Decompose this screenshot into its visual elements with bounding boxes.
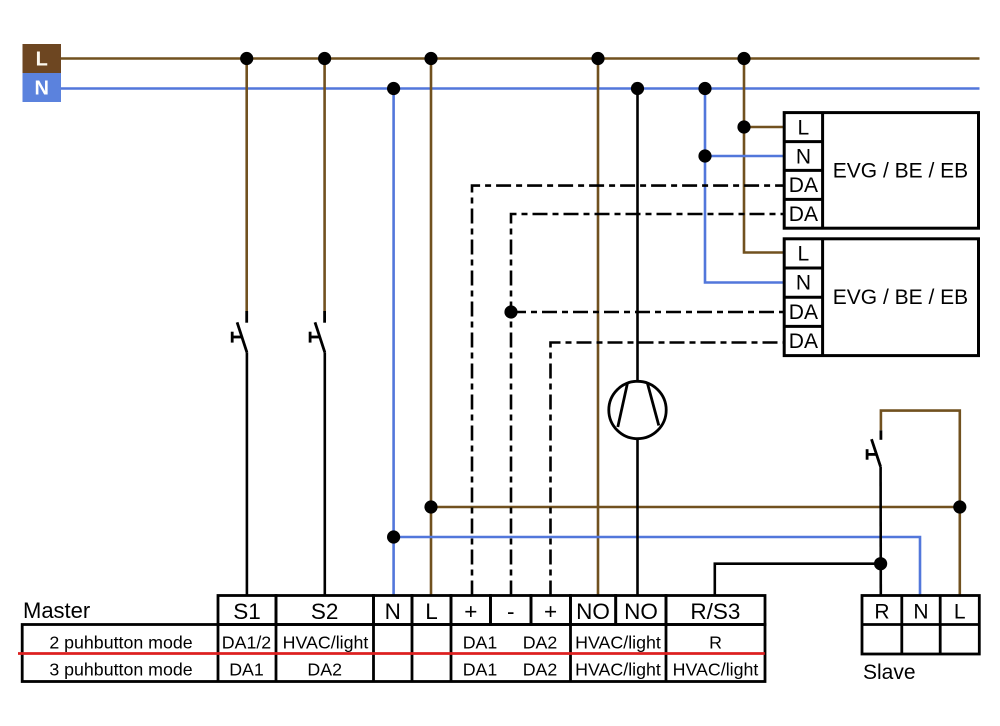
svg-text:+: +: [464, 599, 477, 624]
svg-text:L: L: [798, 242, 810, 265]
svg-text:Slave: Slave: [863, 661, 916, 684]
svg-text:L: L: [798, 116, 810, 139]
svg-text:EVG / BE / EB: EVG / BE / EB: [833, 159, 968, 182]
svg-text:N: N: [796, 145, 811, 168]
svg-text:HVAC/light: HVAC/light: [673, 659, 759, 679]
svg-text:S1: S1: [233, 599, 261, 624]
svg-text:S2: S2: [311, 599, 339, 624]
svg-text:DA1: DA1: [229, 659, 264, 679]
svg-text:N: N: [796, 272, 811, 295]
svg-text:DA2: DA2: [523, 659, 558, 679]
svg-text:DA2: DA2: [307, 659, 342, 679]
svg-text:L: L: [425, 599, 438, 624]
svg-text:L: L: [954, 601, 966, 624]
svg-text:DA: DA: [789, 174, 818, 197]
svg-text:+: +: [544, 599, 557, 624]
svg-text:EVG / BE / EB: EVG / BE / EB: [833, 286, 968, 309]
svg-text:DA: DA: [789, 203, 818, 226]
svg-text:NO: NO: [576, 599, 610, 624]
svg-text:HVAC/light: HVAC/light: [283, 633, 369, 653]
svg-text:DA1: DA1: [463, 633, 498, 653]
svg-text:DA: DA: [789, 330, 818, 353]
svg-text:DA: DA: [789, 301, 818, 324]
svg-text:N: N: [913, 601, 928, 624]
svg-text:HVAC/light: HVAC/light: [575, 659, 661, 679]
svg-text:R: R: [874, 601, 889, 624]
svg-text:3 puhbutton mode: 3 puhbutton mode: [49, 659, 192, 679]
svg-text:DA1/2: DA1/2: [222, 633, 271, 653]
svg-text:N: N: [385, 599, 401, 624]
svg-text:DA1: DA1: [463, 659, 498, 679]
svg-text:-: -: [507, 599, 515, 624]
svg-text:N: N: [34, 78, 48, 100]
svg-text:DA2: DA2: [523, 633, 558, 653]
svg-text:L: L: [36, 49, 48, 71]
svg-text:Master: Master: [23, 598, 90, 623]
svg-text:HVAC/light: HVAC/light: [575, 633, 661, 653]
svg-text:2 puhbutton mode: 2 puhbutton mode: [49, 633, 192, 653]
svg-text:R: R: [709, 633, 722, 653]
svg-text:R/S3: R/S3: [690, 599, 740, 624]
svg-text:NO: NO: [624, 599, 658, 624]
